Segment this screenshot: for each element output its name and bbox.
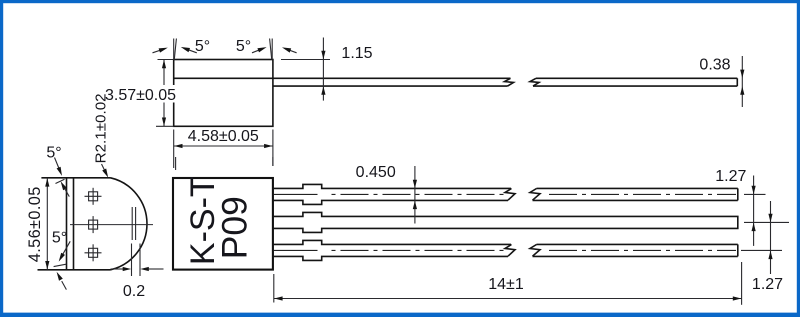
- dome bottom 5deg slanted tick: [54, 264, 67, 266]
- svg-text:1.27: 1.27: [752, 276, 783, 293]
- lead 2 outline: [273, 212, 738, 232]
- svg-text:5°: 5°: [195, 38, 210, 55]
- dim 4.56 arrow down: [45, 261, 49, 270]
- svg-text:5°: 5°: [236, 38, 251, 55]
- dim 0.38 arrow up to lead bottom: [740, 86, 744, 95]
- svg-text:5°: 5°: [46, 145, 61, 162]
- dim 1.15 arrow up to lead bottom: [321, 86, 325, 95]
- dim 0.2 right arrow tail: [149, 268, 164, 270]
- pitch extension line lead1 center: [744, 193, 766, 195]
- svg-text:P09: P09: [215, 196, 255, 259]
- dim 4.58 arrow right: [264, 144, 273, 148]
- dim 0.450 vertical line: [414, 166, 416, 224]
- dim 0.38 arrow down to lead top: [740, 70, 744, 79]
- side-view body rectangle: [174, 60, 273, 127]
- dome view inner face line: [73, 178, 75, 270]
- dim 1.15 vertical line: [322, 38, 324, 101]
- label 4.58±0.05: [187, 128, 260, 146]
- dim 4.56 vertical line: [46, 178, 48, 270]
- draft angle right arrow from left: [252, 48, 264, 53]
- dim 4.58 horizontal line: [174, 145, 273, 147]
- pitch extension line lead3 center: [741, 249, 782, 251]
- draft tick right slanted 5deg: [270, 39, 272, 60]
- R2.1 leader arrowhead: [102, 169, 108, 178]
- lead 1 outline: [273, 184, 738, 204]
- dim 0.2 left arrow tail: [111, 268, 124, 270]
- svg-text:0.38: 0.38: [699, 56, 730, 73]
- side-view lead segment 2 top edge: [536, 77, 737, 79]
- dim 3.57 vertical line: [163, 60, 165, 127]
- draft angle right arrow from right: [285, 49, 297, 53]
- dim 4.58 right extension: [272, 130, 274, 167]
- dim 3.57 bottom extension: [156, 125, 174, 127]
- dim 1.27 upper arrow down: [752, 186, 756, 195]
- dim 3.57 top extension (body top extended left): [158, 59, 174, 61]
- dim 1.27 lower vertical line: [770, 201, 772, 274]
- lead 3 outline: [273, 240, 738, 260]
- lead cross mark 3: [85, 244, 102, 261]
- svg-text:4.56±0.05: 4.56±0.05: [26, 186, 44, 262]
- draft angle left arrow from right: [184, 48, 197, 53]
- lead cross mark 2: [89, 216, 98, 233]
- dome horizontal centerline: [70, 224, 153, 226]
- inter-view extension tick right: [272, 157, 274, 166]
- dim 14±1 left extension: [273, 274, 275, 303]
- draft angle left arrow from left: [153, 49, 166, 53]
- dim 14±1 arrow left: [274, 296, 283, 300]
- dim 14±1 horizontal line: [274, 298, 742, 300]
- dim 1.27 upper arrow up: [752, 223, 756, 232]
- front body rectangle: [173, 178, 273, 270]
- dim 14±1 right extension: [741, 262, 743, 305]
- label 3.57±0.05: [104, 85, 177, 104]
- dim 14±1 arrow right: [733, 296, 742, 300]
- dim 1.15 arrow down to body top: [321, 51, 325, 60]
- dome view left face: [66, 178, 68, 270]
- svg-text:R2.1±0.02: R2.1±0.02: [93, 93, 110, 163]
- svg-text:1.27: 1.27: [715, 168, 746, 185]
- window sliver line left: [131, 207, 133, 240]
- lead 3 centerline: [274, 249, 737, 251]
- dome bottom 5deg arrow from below: [62, 281, 67, 290]
- svg-text:0.450: 0.450: [356, 164, 396, 181]
- dim 1.27 upper vertical line: [753, 176, 755, 246]
- inter-view extension tick left: [175, 157, 177, 170]
- dim 0.38 vertical line: [741, 56, 743, 107]
- dome arc R2.1: [111, 178, 147, 270]
- dim 0.2 right extension: [139, 244, 141, 277]
- dim 3.57 arrow up: [162, 60, 166, 69]
- svg-text:14±1: 14±1: [488, 276, 524, 293]
- draft tick left vertical: [173, 39, 175, 60]
- dome view top edge with extension: [41, 177, 110, 179]
- pitch extension line lead2 center: [744, 221, 789, 223]
- draft tick left slanted 5deg: [174, 39, 176, 60]
- side-view lead break squiggle right: [530, 78, 539, 86]
- lead 1 centerline: [274, 193, 737, 195]
- window sliver line right: [135, 207, 137, 240]
- dim 1.15 top extension (body top extended right): [281, 59, 330, 61]
- side-view body parting line: [174, 77, 273, 79]
- dome top 5deg arrow from label: [55, 158, 60, 170]
- dome view bottom edge with extension: [38, 269, 111, 271]
- lead cross mark 1: [85, 188, 102, 205]
- dim 0.450 arrow up to lead1 bottom: [413, 201, 417, 210]
- dim 1.27 lower arrow down: [768, 214, 772, 223]
- side-view lead end cap: [736, 78, 738, 86]
- side-view lead break squiggle left: [505, 78, 514, 86]
- svg-text:3.57±0.05: 3.57±0.05: [105, 87, 176, 104]
- side-view lead segment 1 bottom edge: [273, 85, 508, 87]
- svg-text:5°: 5°: [52, 230, 67, 247]
- draft tick right vertical: [271, 39, 273, 60]
- R2.1 leader line: [102, 164, 106, 172]
- dome top 5deg arrow from below: [64, 187, 69, 196]
- side-view lead segment 2 bottom edge: [533, 85, 737, 87]
- side-view lead segment 1 top edge: [273, 77, 511, 79]
- svg-text:0.2: 0.2: [123, 283, 145, 300]
- dim 4.56 arrow up: [45, 178, 49, 187]
- svg-text:4.58±0.05: 4.58±0.05: [188, 128, 259, 145]
- dim 3.57 arrow down: [162, 118, 166, 127]
- dome bottom 5deg arrow from label: [62, 241, 70, 255]
- svg-text:1.15: 1.15: [341, 45, 372, 62]
- dim 1.27 lower arrow up: [768, 251, 772, 260]
- dome top 5deg slanted tick: [56, 179, 65, 183]
- dim 0.2 left extension: [131, 244, 133, 277]
- dim 0.450 arrow down to lead1 top: [413, 180, 417, 189]
- dim 4.58 arrow left: [174, 144, 183, 148]
- dim 4.58 left extension: [173, 130, 175, 169]
